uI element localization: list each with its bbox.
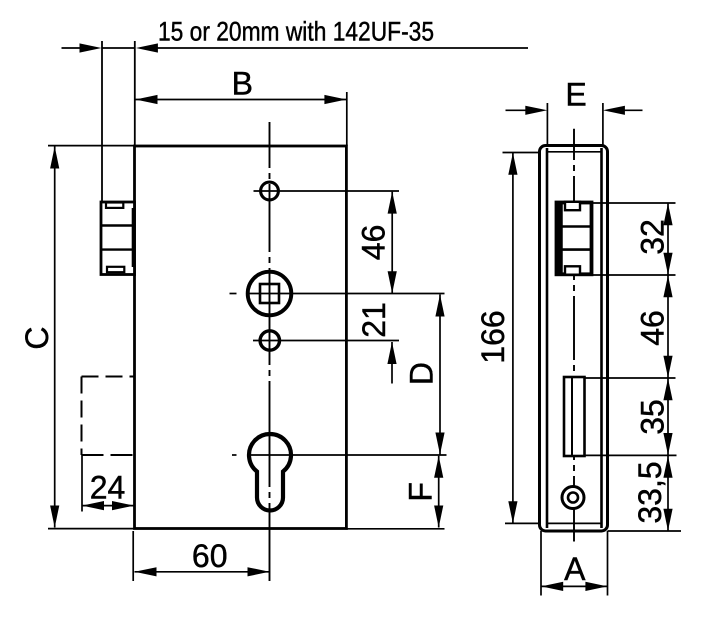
side view case bottom inner line	[547, 522, 602, 524]
lower hole leader line	[253, 340, 399, 342]
svg-text:15 or 20mm with 142UF-35: 15 or 20mm with 142UF-35	[158, 17, 434, 47]
dimension E right tail	[623, 109, 643, 111]
follower horizontal centerline dash	[230, 293, 237, 295]
dashed compartment left line	[81, 377, 83, 456]
dimension 15/20 right arrowhead	[136, 43, 158, 52]
dimension F bottom arrowhead	[434, 506, 443, 528]
extension line chain 455	[585, 454, 677, 456]
follower horizontal line	[248, 293, 445, 295]
top mounting hole leader line	[254, 190, 400, 192]
dashed compartment top line	[82, 376, 135, 378]
dimension 166 bottom arrowhead	[508, 501, 517, 523]
dimension 15/20 right tail and text underline	[155, 47, 528, 49]
extension line A right	[607, 531, 609, 596]
euro profile cylinder hole	[249, 434, 291, 510]
chain bowtie 455 lower	[663, 456, 672, 478]
svg-text:60: 60	[192, 538, 228, 574]
dimension C line	[54, 147, 56, 528]
chain bowtie 378 lower	[663, 378, 672, 400]
side view case top inner line	[547, 151, 602, 153]
dimension F line	[438, 456, 440, 528]
side screw hole outer	[562, 487, 584, 509]
dimension 166 line	[512, 153, 514, 523]
side deadbolt slot	[564, 377, 585, 456]
svg-text:46: 46	[356, 225, 392, 261]
dimension D top arrowhead	[435, 295, 444, 317]
extension line chain 378	[585, 377, 676, 379]
svg-text:33,5: 33,5	[632, 461, 668, 523]
dimension D line	[439, 295, 441, 455]
extension line 166 top	[503, 152, 540, 154]
svg-text:166: 166	[475, 310, 511, 363]
lower mounting hole	[260, 331, 279, 350]
extension line B right	[346, 92, 348, 146]
follower square spindle hole	[260, 284, 279, 303]
dimension 15/20 line left tail	[62, 47, 83, 49]
svg-text:D: D	[403, 362, 439, 385]
extension line A left	[540, 531, 542, 596]
cylinder horizontal line	[249, 454, 447, 456]
extension line chain bottom	[608, 530, 682, 532]
dashed compartment bottom line	[82, 454, 135, 456]
svg-text:B: B	[232, 66, 253, 102]
svg-text:35: 35	[635, 399, 671, 435]
dimension 24 line	[82, 505, 134, 507]
chain top arrowhead	[663, 203, 672, 225]
dimension 15/20 middle segment	[102, 47, 135, 49]
svg-text:32: 32	[635, 219, 671, 255]
dimension 24 right arrowhead	[112, 501, 134, 510]
dimension C top arrowhead	[50, 147, 59, 169]
dimension 21 arrowhead below pointing up	[387, 342, 396, 364]
chain bowtie 275 upper	[663, 253, 672, 275]
lock case outline	[135, 146, 347, 529]
svg-text:E: E	[565, 76, 586, 112]
dimension F top arrowhead	[434, 456, 443, 478]
extension line case bottom to F	[346, 528, 444, 530]
chain bowtie 275 lower	[663, 275, 672, 297]
extension line chain 275	[592, 274, 676, 276]
extension line 60 left	[132, 531, 134, 581]
side view case right line	[600, 148, 603, 528]
follower hub circle	[248, 272, 292, 316]
dimension 15/20 left arrowhead	[80, 43, 102, 52]
dimension 46 line	[391, 192, 393, 294]
extension line 24 left	[81, 455, 83, 512]
dimension C bottom arrowhead	[50, 506, 59, 528]
dimension A left arrowhead	[541, 582, 563, 591]
extension line case left top	[134, 41, 136, 146]
svg-text:A: A	[564, 551, 586, 587]
dimension E left arrowhead	[525, 106, 547, 115]
dimension 60 right arrowhead	[248, 567, 270, 576]
dimension E right arrowhead	[603, 106, 625, 115]
dimension B left arrowhead	[136, 95, 158, 104]
side view faceplate outline	[540, 146, 608, 532]
extension line faceplate front	[101, 41, 103, 202]
extension line 166 bottom	[505, 522, 540, 524]
dimension 46 bottom arrowhead	[388, 271, 397, 293]
dimension A right arrowhead	[585, 582, 607, 591]
extension line E right	[602, 103, 604, 145]
dimension 46 top arrowhead	[388, 192, 397, 214]
chain bottom arrowhead	[663, 509, 672, 531]
svg-text:F: F	[403, 482, 439, 502]
extension line E left	[546, 103, 548, 145]
side deadbolt edge line	[571, 377, 573, 456]
top mounting hole	[261, 182, 279, 200]
side view case left line	[546, 148, 549, 528]
dimension 60 line	[135, 571, 270, 573]
dimension 21 tail	[391, 342, 393, 384]
dimension chain line	[667, 203, 669, 531]
extension line case top to C	[48, 145, 135, 147]
cylinder horizontal dash left	[232, 454, 237, 456]
svg-text:21: 21	[356, 302, 392, 338]
chain bowtie 378 upper	[663, 356, 672, 378]
svg-text:46: 46	[635, 310, 671, 346]
side view centerline	[573, 129, 575, 542]
dimension 24 left arrowhead	[82, 501, 104, 510]
dimension 166 top arrowhead	[508, 153, 517, 175]
svg-text:C: C	[19, 326, 55, 349]
dimension B line	[136, 99, 347, 101]
latch bolt front view	[101, 202, 135, 275]
dimension 60 left arrowhead	[135, 567, 157, 576]
dimension E left tail	[506, 109, 528, 111]
side latch frame	[557, 202, 592, 275]
dimension A line	[541, 585, 608, 587]
side screw hole inner	[568, 493, 578, 503]
dimension B right arrowhead	[324, 95, 346, 104]
case vertical centerline	[269, 122, 271, 581]
svg-text:24: 24	[90, 470, 126, 506]
chain bowtie 455 upper	[663, 433, 672, 455]
extension line chain 203	[592, 202, 676, 204]
extension line case bottom to C	[48, 528, 135, 530]
dimension D bottom arrowhead	[435, 433, 444, 455]
